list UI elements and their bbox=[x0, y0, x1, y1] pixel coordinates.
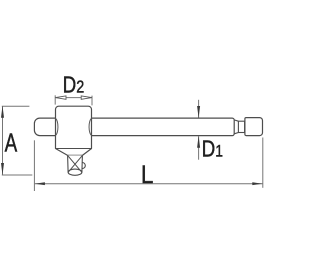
head body bottom line bbox=[56, 148, 92, 150]
dimension A line bbox=[2, 107, 4, 175]
label D2 bbox=[63, 73, 85, 98]
square drive body bbox=[68, 155, 83, 172]
dimension A extension line top bbox=[2, 105, 30, 107]
dimension D2 open arrow left bbox=[55, 96, 66, 99]
svg-text:L: L bbox=[141, 161, 154, 190]
dimension L extension line left bbox=[33, 140, 35, 191]
end knob bbox=[245, 118, 263, 136]
dimension A extension line bottom bbox=[2, 174, 33, 176]
dimension A arrow up bbox=[1, 106, 4, 118]
dimension A arrow down bbox=[1, 163, 4, 175]
short bar stub (left end of sliding bar) bbox=[34, 118, 56, 136]
dimension D2 open arrow right bbox=[81, 96, 92, 99]
dimension D1 line lower bbox=[198, 136, 200, 160]
dimension D1 arrow down bbox=[197, 106, 200, 118]
dimension D1 line upper bbox=[198, 100, 200, 118]
long bar (shaft) bbox=[91, 118, 234, 136]
drive side edges bbox=[68, 155, 83, 172]
label D1 bbox=[202, 137, 223, 162]
neck groove chamfer lines at right end bbox=[234, 120, 238, 134]
dimension L line bbox=[35, 183, 263, 185]
dimension L extension line right bbox=[262, 138, 264, 188]
dimension D2 extension line left bbox=[54, 95, 56, 104]
detent ball bbox=[82, 162, 85, 168]
neck groove bbox=[238, 121, 244, 132]
dimension L arrow right bbox=[252, 182, 262, 185]
bore arc left (inside head) bbox=[56, 118, 58, 135]
dimension L arrow left bbox=[35, 182, 45, 185]
bore arc right (inside head) bbox=[89, 118, 91, 135]
svg-text:A: A bbox=[5, 129, 18, 157]
dimension D2 line bbox=[55, 97, 92, 99]
label A bbox=[5, 129, 18, 157]
label L bbox=[141, 161, 154, 190]
dimension D1 arrow up bbox=[197, 136, 200, 148]
drive bottom ellipse bbox=[68, 169, 82, 175]
svg-text:D2: D2 bbox=[63, 73, 85, 98]
drive diagonal cross bbox=[68, 155, 83, 172]
head (sliding body) with taper bbox=[56, 106, 92, 155]
dimension D2 extension line right bbox=[91, 96, 93, 106]
